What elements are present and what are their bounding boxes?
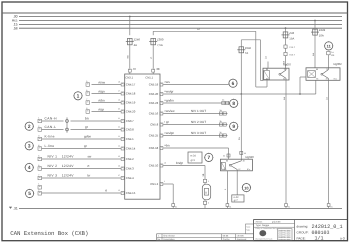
svg-text:CN3.8: CN3.8	[126, 128, 134, 132]
svg-text:gr/bn: gr/bn	[84, 135, 91, 139]
svg-text:CN4.14: CN4.14	[126, 147, 136, 151]
title block note row	[256, 227, 278, 230]
svg-text:4: 4	[28, 165, 31, 171]
svg-text:7A: 7A	[245, 52, 248, 55]
svg-text:CN4.19: CN4.19	[126, 101, 136, 105]
relay Rg002 switch	[321, 68, 329, 81]
cable end pin rt/gn	[86, 89, 90, 95]
svg-text:7: 7	[207, 155, 210, 161]
relay Rg040 pin labels	[224, 160, 251, 172]
block left pin CN4.14	[118, 144, 124, 150]
reference circle 8	[229, 99, 238, 108]
cable end pin rt/sw	[86, 80, 90, 86]
ground bus label .31	[9, 207, 18, 211]
svg-text:30: 30	[243, 160, 245, 163]
reference circle 7	[204, 153, 213, 162]
svg-text:11: 11	[118, 135, 120, 138]
svg-text:Z246: Z246	[245, 47, 252, 50]
wire Rg040 pin 85 to ground	[224, 171, 227, 204]
wire bn/gr to buzzer	[163, 161, 205, 165]
title block name row	[256, 221, 282, 224]
relay Rg040 body	[221, 155, 255, 171]
pin pair gn/bn	[222, 99, 229, 105]
pin C14.7	[284, 45, 296, 49]
svg-text:Description: Description	[164, 238, 176, 241]
block label CN4.3	[126, 167, 134, 171]
relay Rg002 pin labels	[316, 68, 338, 81]
block label CN5.10	[149, 164, 159, 168]
wire Rg002 pin 85 down	[315, 80, 317, 94]
wire drop from Acc	[314, 21, 316, 29]
fuse Z390 7,5A	[149, 38, 164, 47]
cable end pin spare	[38, 183, 42, 189]
svg-text:16: 16	[118, 98, 120, 101]
svg-text:Policy of Streamlined list by: Policy of Streamlined list by	[256, 227, 278, 230]
svg-text:Amess: Amess	[256, 221, 264, 224]
wire CAN-L	[42, 125, 64, 129]
junction ws/gr with Z246 branch	[240, 93, 242, 95]
bus label .30	[13, 15, 18, 19]
svg-text:sw: sw	[283, 97, 286, 100]
block label CN5.18	[149, 146, 159, 150]
block left pin CN4.4	[118, 174, 124, 180]
wire NIV 3 12/24V	[42, 174, 122, 178]
wire gr to CN3.8	[71, 125, 122, 129]
pin pair below buzzer	[203, 200, 210, 205]
wire drop from .58	[285, 28, 287, 31]
svg-text:CN5.23: CN5.23	[149, 101, 159, 105]
svg-text:3c: 3c	[220, 131, 222, 134]
cable end pin NIV 2	[38, 164, 42, 170]
svg-text:rt/gn: rt/gn	[99, 89, 105, 93]
svg-text:NIV 3: NIV 3	[48, 174, 58, 178]
sheet title CAN Extension Box (CXB)	[10, 230, 88, 237]
svg-text:CN5.19: CN5.19	[149, 83, 159, 87]
svg-text:Z246: Z246	[134, 38, 141, 42]
fuse Z43 15A	[282, 31, 295, 40]
address block	[277, 229, 292, 241]
block left pin CN4.15	[118, 189, 124, 195]
wire ws to circle 6	[163, 80, 229, 84]
reference circle 1	[73, 91, 82, 100]
relay Rg040 coil	[221, 162, 225, 169]
svg-text:4A: 4A	[134, 43, 138, 47]
svg-text:Rg040: Rg040	[246, 155, 255, 159]
svg-text:Rg002: Rg002	[334, 62, 343, 66]
svg-text:Approved: Approved	[237, 238, 247, 241]
wire rt/bn	[92, 98, 122, 102]
block label CN5.8	[150, 123, 158, 127]
svg-text:first release: first release	[164, 235, 176, 238]
svg-text:CAN-L: CAN-L	[45, 125, 57, 129]
reference box m.52 gr.7	[232, 195, 244, 202]
ground pin of Rg002 branch	[327, 204, 332, 209]
block label CN1.2	[150, 182, 158, 186]
svg-text:.37: .37	[132, 67, 136, 71]
relay Rg007 switch	[279, 68, 286, 80]
block label CN4.15	[126, 191, 136, 195]
wire rt/gr	[92, 107, 122, 111]
block right pin CN5.8	[160, 120, 165, 126]
inline connector on CAN pair	[66, 117, 69, 132]
svg-text:85: 85	[224, 168, 226, 171]
svg-text:NIV 1: NIV 1	[48, 155, 58, 159]
svg-text:30: 30	[284, 68, 286, 71]
svg-text:.31: .31	[13, 207, 18, 211]
block label CN4.18	[126, 92, 136, 96]
block label CN5.25	[149, 134, 159, 138]
svg-text:3: 3	[28, 144, 31, 150]
cable end pin CAN-L	[38, 125, 42, 131]
reference circle 6	[228, 79, 237, 88]
bus wire .15	[19, 24, 342, 26]
wire NIV 2 12/24V	[42, 164, 122, 168]
svg-text:.38: .38	[156, 67, 160, 71]
svg-text:09.08: 09.08	[223, 235, 229, 238]
wire Rg002 pin 87 to ground	[325, 80, 328, 203]
svg-text:gr: gr	[166, 120, 169, 124]
svg-text:bn: bn	[166, 144, 170, 148]
block right pin CN5.23	[160, 99, 166, 105]
svg-text:NIV 2: NIV 2	[48, 164, 58, 168]
block label CN5.16	[149, 112, 159, 116]
svg-text:31: 31	[229, 205, 231, 208]
wire bn to CN3.7	[71, 117, 122, 121]
title block outline	[254, 220, 348, 241]
wire bn drop to Rg040	[228, 148, 230, 159]
svg-text:8: 8	[232, 101, 235, 107]
svg-text:rt: rt	[88, 164, 90, 168]
svg-text:Prel.by: Prel.by	[223, 238, 231, 241]
svg-text:87: 87	[326, 78, 328, 81]
reference circle 11	[324, 41, 333, 50]
svg-text:30: 30	[326, 68, 328, 71]
pin A14.7	[284, 52, 296, 56]
block right pin CN5.19	[160, 80, 166, 86]
wire drop to Z390	[152, 31, 154, 35]
bus wire .30	[19, 16, 342, 18]
svg-text:31: 31	[175, 205, 177, 208]
svg-text:CN4.18: CN4.18	[126, 92, 136, 96]
svg-text:CN5.8: CN5.8	[150, 123, 158, 127]
wire CN1.2 to ground	[163, 184, 173, 204]
block label CN4.2	[126, 157, 134, 161]
svg-text:Rg007: Rg007	[283, 62, 292, 66]
svg-text:CN3.1: CN3.1	[125, 77, 133, 80]
svg-text:1: 1	[77, 94, 80, 100]
svg-text:B: B	[205, 192, 207, 195]
ground bus wire .31	[19, 208, 342, 210]
ground pin of CN1.2 branch	[172, 204, 177, 209]
wire rt/gn	[92, 89, 122, 93]
header separator line	[2, 12, 348, 14]
cable end pin K-line	[38, 134, 42, 140]
svg-text:Z390: Z390	[157, 38, 164, 42]
svg-text:8: 8	[164, 120, 165, 123]
svg-text:NIV 2 OUT: NIV 2 OUT	[191, 120, 206, 124]
block right pin CN5.10	[160, 161, 166, 167]
junction on Acc bus	[314, 20, 316, 22]
relay Rg002 coil	[308, 71, 316, 78]
svg-text:15A: 15A	[289, 36, 294, 40]
wire t09 to relay Rg002 pin 30	[327, 55, 329, 68]
wire feed line a4	[153, 28, 256, 31]
svg-text:22: 22	[118, 125, 120, 128]
svg-text:CN5.18: CN5.18	[149, 146, 159, 150]
svg-text:bn: bn	[85, 117, 89, 121]
svg-text:9: 9	[232, 124, 235, 130]
svg-text:30: 30	[244, 152, 246, 155]
wire L-line gr/rt	[42, 144, 122, 148]
svg-text:17: 17	[118, 89, 120, 92]
svg-text:sw: sw	[127, 55, 130, 58]
wire K-line gr/bn	[42, 135, 122, 139]
block label CN3.8	[126, 128, 134, 132]
svg-text:12/24V: 12/24V	[62, 164, 75, 168]
block label CN4.17	[126, 83, 136, 87]
svg-text:A14.7: A14.7	[289, 53, 295, 56]
wire between pins	[285, 48, 287, 52]
title block row lines	[254, 223, 295, 227]
bus label .58	[13, 26, 18, 30]
block left pin CN4.19	[118, 98, 124, 104]
field group	[297, 230, 330, 236]
wire Z246 loop to Rg007 coil	[241, 40, 263, 81]
svg-text:PAGE:: PAGE:	[297, 236, 306, 240]
block label CN4.1	[126, 137, 134, 141]
wire Rg002 coil left to ws/gr	[299, 77, 306, 95]
svg-text:.58: .58	[13, 26, 18, 30]
block right pin CN1.2	[160, 180, 165, 186]
block right pin CN5.25	[160, 131, 166, 137]
wire CAN-H	[42, 117, 64, 121]
svg-text:87: 87	[238, 168, 240, 171]
wire Z246 branch down to relay Rg040	[238, 94, 241, 159]
svg-text:6: 6	[232, 81, 235, 87]
fuse Z249 10A	[311, 28, 326, 37]
relay Rg007 body	[263, 62, 292, 80]
svg-text:31: 31	[288, 205, 290, 208]
svg-text:rt/gr: rt/gr	[99, 107, 105, 111]
svg-text:86: 86	[223, 154, 225, 157]
cable end pin L-line	[38, 144, 42, 150]
svg-text:Oberstammheim+werk: Oberstammheim+werk	[255, 238, 272, 241]
block label CN5.23	[149, 101, 159, 105]
wire to relay Rg007 pin 30	[282, 56, 285, 69]
block left pin CN4.1	[118, 135, 124, 141]
buzzer B1 body	[202, 184, 210, 200]
title block type row	[256, 224, 270, 227]
junction on .58 bus	[285, 27, 287, 29]
svg-text:CN4.17: CN4.17	[126, 83, 136, 87]
svg-text:CN5.20: CN5.20	[149, 92, 159, 96]
wire pin .38 to block	[152, 72, 154, 74]
bus wire Acc	[19, 20, 342, 22]
revision table	[157, 234, 254, 241]
svg-text:Nag: Nag	[246, 229, 249, 232]
bus label .15	[13, 23, 18, 27]
ground pin of Rg040 branch	[226, 204, 231, 209]
svg-text:10A: 10A	[319, 34, 324, 38]
block left pin CN4.17	[118, 80, 124, 86]
svg-text:ws: ws	[166, 80, 170, 84]
svg-text:br: br	[88, 174, 91, 178]
svg-text:15: 15	[118, 189, 120, 192]
svg-text:rt: rt	[105, 189, 107, 193]
block left pin CN3.7	[118, 117, 124, 123]
block left pin CN4.3	[118, 164, 124, 170]
svg-text:12/24V: 12/24V	[62, 174, 75, 178]
pin pair NIV 1 OUT	[219, 109, 226, 115]
fuse Z246 7A	[237, 47, 251, 55]
wire ws/sw NIV 1 OUT	[163, 109, 227, 113]
wire Z246 to ws/gr junction	[240, 53, 242, 94]
svg-text:CN4.3: CN4.3	[126, 167, 134, 171]
svg-text:C14.7: C14.7	[289, 46, 296, 49]
reference circle 4	[25, 163, 34, 172]
svg-text:CN3.7: CN3.7	[126, 119, 134, 123]
svg-text:rt/sw: rt/sw	[99, 80, 106, 84]
svg-text:31: 31	[330, 205, 332, 208]
block right pin CN5.18	[160, 144, 166, 150]
svg-text:rt/bn: rt/bn	[99, 98, 105, 102]
svg-text:CN4.1: CN4.1	[126, 137, 134, 141]
svg-text:Z43: Z43	[289, 31, 294, 35]
svg-text:gn/bn: gn/bn	[166, 99, 174, 103]
revision row 2	[157, 238, 247, 241]
svg-text:12/24V: 12/24V	[62, 155, 75, 159]
wire NIV 1 12/24V	[42, 155, 122, 159]
svg-text:86: 86	[266, 68, 268, 71]
svg-text:10: 10	[164, 161, 166, 164]
wire fuse to pin .37	[127, 45, 130, 69]
wire fuse Z43 down	[285, 38, 287, 45]
reference circle 3	[25, 141, 34, 150]
title block divider	[294, 220, 296, 241]
svg-text:85: 85	[266, 77, 268, 80]
svg-text:7,5A: 7,5A	[157, 43, 163, 47]
cable end pin rt/gr	[86, 107, 90, 113]
wire rt/sw	[92, 80, 122, 84]
svg-text:25: 25	[118, 155, 120, 158]
svg-text:35: 35	[118, 107, 120, 110]
svg-text:CN1.2: CN1.2	[150, 182, 158, 186]
svg-text:CAN-H: CAN-H	[45, 117, 58, 121]
fuse Z246 4A	[126, 38, 141, 47]
block label CN4.19	[126, 101, 136, 105]
svg-text:CN4.15: CN4.15	[126, 191, 136, 195]
logo mark	[259, 230, 266, 236]
reference circle 5	[25, 189, 34, 198]
svg-text:27: 27	[118, 174, 120, 177]
wire bn to relay Rg040 coil	[163, 144, 228, 148]
block right pin CN5.16	[160, 109, 166, 115]
svg-text:Z249: Z249	[319, 28, 326, 32]
svg-text:CN5.25: CN5.25	[149, 134, 159, 138]
pin pair NIV 3 OUT	[219, 131, 226, 137]
svg-text:CN4.4: CN4.4	[126, 176, 134, 180]
pin on bn drop	[223, 154, 230, 157]
wire rt to CN4.15	[42, 189, 122, 193]
block right pin CN5.20	[160, 90, 166, 96]
svg-text:NIV 3 OUT: NIV 3 OUT	[191, 131, 206, 135]
relay Rg007 pin labels	[266, 68, 286, 80]
pin .38	[152, 67, 160, 72]
svg-text:26: 26	[118, 164, 120, 167]
cell above revision table	[246, 224, 254, 234]
svg-text:CN4.20: CN4.20	[126, 110, 136, 114]
logo mark text	[255, 238, 272, 241]
wire Rg007 pin 87 to ground	[283, 80, 286, 203]
svg-text:86: 86	[226, 160, 228, 163]
pin .37	[128, 67, 136, 72]
svg-text:1/1: 1/1	[315, 236, 324, 242]
svg-text:21: 21	[118, 117, 120, 120]
block label CN4.14	[126, 147, 136, 151]
wire drop from .30	[129, 17, 131, 36]
connector block body	[125, 74, 160, 199]
svg-text:CN5.16: CN5.16	[149, 112, 159, 116]
wire bn/gr drop	[202, 166, 205, 180]
svg-text:ws/gn: ws/gn	[166, 131, 174, 135]
svg-text:2: 2	[28, 124, 31, 130]
stub Rg007 pin 86	[265, 56, 268, 69]
svg-text:85: 85	[316, 78, 318, 81]
wire ws/gn NIV 3 OUT	[163, 131, 227, 135]
svg-text:CN4.2: CN4.2	[126, 157, 134, 161]
svg-text:ws/sw: ws/sw	[166, 109, 175, 113]
svg-text:10: 10	[244, 185, 248, 190]
block left pin CN3.8	[118, 125, 124, 131]
block label CN1.1	[145, 77, 153, 80]
svg-text:gr/y.8.08: gr/y.8.08	[272, 221, 281, 224]
svg-text:86: 86	[316, 68, 318, 71]
bus wire .58	[19, 27, 342, 29]
svg-text:18: 18	[118, 80, 120, 83]
wire fuse Z249 to relay Rg002	[312, 35, 315, 68]
block left pin CN4.2	[118, 155, 124, 161]
cable end pin NIV 1	[38, 154, 42, 160]
wire a4 loop to Rg007 pin 85	[256, 31, 267, 87]
svg-text:K-line: K-line	[45, 135, 55, 139]
svg-text:CN5.10: CN5.10	[149, 164, 159, 168]
reference box m 34 gr 9	[188, 152, 202, 163]
cable end pin NIV 3	[38, 173, 42, 179]
relay Rg007 coil	[264, 71, 270, 80]
svg-text:gr: gr	[84, 144, 87, 148]
cable end pin CAN-H	[38, 116, 42, 122]
svg-text:m 34: m 34	[190, 155, 196, 158]
svg-text:CN1.1: CN1.1	[145, 77, 153, 80]
wire gr NIV 2 OUT	[163, 120, 227, 124]
reference circle 10	[242, 183, 251, 192]
pin on Z246 branch drop	[240, 151, 246, 154]
block label CN4.4	[126, 176, 134, 180]
svg-text:gr 9: gr 9	[191, 159, 196, 162]
wire buzzer to ground	[204, 204, 206, 208]
svg-text:Type: Type	[246, 225, 250, 228]
svg-text:chr.NN: chr.NN	[237, 235, 244, 238]
block left pin CN4.20	[118, 107, 124, 113]
svg-text:drawing:: drawing:	[297, 225, 309, 229]
wire fuse Z390 to pin .38	[150, 45, 153, 69]
svg-text:L-line: L-line	[45, 144, 55, 148]
svg-text:12: 12	[118, 144, 120, 147]
svg-text:ws/gr: ws/gr	[166, 90, 173, 94]
svg-text:rt: rt	[150, 57, 153, 59]
pin pair above buzzer	[203, 179, 210, 184]
block label CN3.1	[125, 77, 133, 80]
